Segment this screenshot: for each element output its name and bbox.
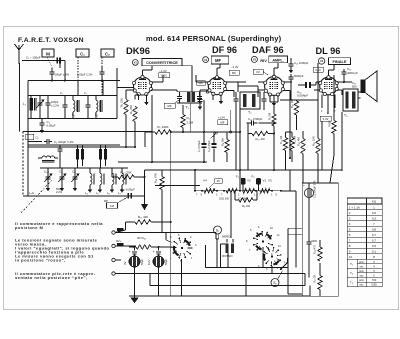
V1 designator circle: [132, 60, 138, 66]
resistor R2 22K vertical: [124, 100, 128, 115]
svg-text:0,7: 0,7: [372, 233, 377, 237]
svg-text:C₁₅-0,05µF: C₁₅-0,05µF: [121, 187, 135, 191]
svg-text:R₁₁-1M: R₁₁-1M: [279, 136, 283, 144]
resistor R6 6ohm: [239, 198, 253, 202]
svg-text:NERO: NERO: [222, 235, 231, 239]
svg-text:C₇: C₇: [84, 92, 87, 95]
svg-text:L₇: L₇: [118, 191, 121, 195]
svg-text:50µF: 50µF: [164, 259, 168, 265]
svg-text:V: V: [373, 274, 375, 278]
osc transformer B: [99, 149, 102, 160]
resistor R13 vertical: [301, 139, 305, 154]
oscillator coil L8: [42, 156, 55, 158]
box Cx label: [26, 134, 34, 140]
svg-text:C₂₀ 500µF 3VA: C₂₀ 500µF 3VA: [313, 180, 317, 198]
svg-text:4000 pF: 4000 pF: [347, 71, 358, 75]
V4 designator circle: [318, 58, 324, 64]
svg-text:+1,4V: +1,4V: [218, 116, 225, 120]
wire bottom bus: [129, 295, 310, 297]
values table: [347, 198, 382, 204]
svg-text:1 + L 16: 1 + L 16: [349, 205, 360, 209]
svg-text:3K R₁₆: 3K R₁₆: [137, 236, 147, 240]
wire V4 pins bottom: [321, 95, 323, 109]
svg-text:100pF ± 2%: 100pF ± 2%: [55, 73, 70, 77]
svg-text:DK96: DK96: [126, 45, 150, 56]
capacitor C14 5000pF: [290, 74, 292, 77]
capacitor C4 100pF: [44, 141, 47, 143]
op V2 tube: [208, 77, 225, 94]
svg-text:0,7: 0,7: [372, 238, 377, 242]
terminal post 2: [112, 244, 115, 247]
wire switch right links: [288, 227, 303, 229]
box FINALE: [329, 58, 351, 65]
switch rotor S1 wafer: [262, 240, 264, 242]
svg-text:5000pF: 5000pF: [294, 74, 304, 78]
wire drop x274: [273, 130, 275, 170]
wire antenna drop: [19, 63, 21, 132]
op V1 tube: [134, 77, 152, 95]
bus AVC line: [28, 146, 135, 148]
svg-text:sentato nella posizione “pile”: sentato nella posizione “pile”,: [15, 275, 88, 280]
wire row1 top rail: [28, 95, 117, 97]
trimmer cap L3: [87, 102, 89, 105]
box AMPL: [269, 56, 288, 63]
ground row g4: [89, 187, 91, 190]
svg-text:R₁₄ 1M: R₁₄ 1M: [290, 99, 294, 108]
filament resistor Rc: [243, 189, 255, 193]
svg-text:R₃ 25K: R₃ 25K: [129, 105, 133, 114]
transformer T2: [240, 92, 260, 109]
svg-text:Cₓ: Cₓ: [36, 136, 39, 140]
resistor R4 2.2M vertical: [181, 115, 185, 128]
svg-text:RP: RP: [104, 199, 108, 203]
switch rotor S2 wafer: [271, 255, 273, 257]
resistor R14 vertical: [294, 101, 298, 115]
svg-text:T₁: T₁: [350, 262, 353, 266]
loudspeaker: [361, 80, 366, 94]
ground row g1: [47, 185, 49, 188]
ground C13: [290, 67, 292, 70]
svg-text:R₁ - 33K: R₁ - 33K: [120, 171, 131, 175]
svg-text:R₆-6Ω: R₆-6Ω: [242, 204, 250, 208]
filament resistor Rb: [226, 189, 237, 193]
capacitor C12 4700pF: [248, 122, 252, 124]
capacitor C7 0.05uF: [203, 100, 205, 143]
switch S1 designator: [214, 226, 222, 234]
wire rotor drops: [262, 253, 264, 268]
oscillator box: [23, 131, 152, 133]
ground row g5: [99, 187, 101, 190]
svg-text:0,1: 0,1: [372, 249, 377, 253]
svg-text:0,5: 0,5: [372, 244, 377, 248]
resistor R15 vertical: [316, 139, 320, 154]
svg-text:C₄ 100pF ± 2%: C₄ 100pF ± 2%: [54, 140, 74, 144]
capacitor C13 1000pF: [290, 61, 292, 64]
switch rotor S1 wafer C: [181, 247, 183, 249]
coil L5: [100, 173, 102, 184]
resistor R7 2M vertical: [272, 114, 276, 126]
coil L7: [122, 173, 124, 184]
svg-text:0,85: 0,85: [371, 283, 377, 287]
switch S2 designator: [271, 279, 279, 287]
svg-text:500: 500: [352, 85, 357, 89]
bus HT line: [118, 161, 207, 163]
wire bus drop a: [155, 185, 200, 187]
wire V3 bottom drop: [273, 95, 275, 114]
wire bus 262: [215, 233, 217, 240]
svg-text:R₅ 190K: R₅ 190K: [157, 125, 168, 129]
svg-text:MF: MF: [232, 71, 236, 75]
wire V3 grid top: [277, 63, 279, 68]
coil L4: [90, 173, 92, 184]
transformer T3: [343, 89, 358, 111]
leader M: [47, 57, 52, 67]
wire switch left verticals: [216, 239, 218, 268]
svg-text:MF: MF: [215, 58, 221, 63]
op V3 tube: [265, 77, 284, 96]
capacitor C21 5000pF: [308, 239, 310, 242]
wire filament to transformer: [230, 192, 232, 238]
filament resistor Ra: [204, 189, 215, 193]
svg-text:R₂ 22K: R₂ 22K: [120, 98, 124, 107]
wire V3 right: [283, 81, 292, 83]
capacitor V2 left bypass: [199, 97, 201, 100]
wire drop x240: [239, 109, 241, 190]
capacitor C19 4000pF: [343, 69, 345, 72]
wire V4 grid top: [333, 65, 335, 70]
svg-text:OSC: OSC: [161, 74, 167, 78]
svg-text:FINALE: FINALE: [332, 59, 346, 64]
svg-text:5000: 5000: [312, 240, 318, 243]
leader C2: [101, 57, 103, 66]
resistor R17 39 vertical: [318, 276, 322, 290]
svg-text:RIV: RIV: [260, 58, 267, 63]
wire antenna rail: [61, 60, 65, 62]
switch transformer: [226, 244, 229, 254]
capacitor C15 coupling dark: [305, 82, 307, 88]
variable capacitor C6: [74, 174, 76, 177]
svg-text:mod. 614 PERSONAL (Superdingh: mod. 614 PERSONAL (Superdinghy): [146, 34, 282, 43]
wire R5 left: [145, 131, 155, 133]
svg-text:± 2,2%: ± 2,2%: [51, 103, 60, 107]
V3 designator circle: [251, 56, 257, 62]
resistor R11 33K: [118, 175, 134, 179]
svg-text:V: V: [373, 269, 375, 273]
svg-text:C₁ – 100pF: C₁ – 100pF: [26, 56, 41, 60]
wire V1 anode drop: [151, 95, 153, 162]
resistor R16 47K vertical: [160, 177, 164, 190]
svg-text:C₁: C₁: [80, 51, 85, 56]
battery plug 1: [117, 228, 124, 231]
ground row g2: [61, 185, 63, 188]
svg-text:R₁₃ 4M: R₁₃ 4M: [297, 137, 301, 146]
wire rail y80: [28, 80, 120, 82]
wire right diagonals: [341, 112, 343, 170]
resistor R11 1M vertical: [283, 138, 287, 151]
svg-text:R₁₈-470: R₁₈-470: [313, 244, 317, 254]
wire V1 right pins: [151, 81, 163, 83]
svg-text:−1,4V: −1,4V: [231, 65, 239, 69]
svg-text:R-680: R-680: [329, 120, 332, 127]
wire long drop 170: [170, 132, 172, 296]
svg-text:100pF: 100pF: [51, 100, 59, 104]
ground bottom: [134, 296, 136, 298]
right box outline: [302, 183, 338, 296]
ground row g3: [74, 185, 76, 188]
svg-text:8,2V: 8,2V: [147, 259, 151, 265]
label V3 det box: [253, 69, 263, 74]
electrolytic C17: [153, 256, 164, 267]
wire V1 left pins: [126, 89, 134, 91]
svg-text:V: V: [373, 264, 375, 268]
svg-text:V4: V4: [320, 59, 324, 63]
svg-text:R₁₅ 42K: R₁₅ 42K: [138, 215, 149, 219]
svg-text:0,05µF 2,2%: 0,05µF 2,2%: [77, 73, 93, 77]
V2 designator circle: [203, 57, 209, 63]
trimmer cap ant: [47, 100, 49, 103]
svg-text:R₁₇-39: R₁₇-39: [313, 275, 317, 283]
svg-text:prim: prim: [359, 279, 364, 282]
capacitor C2 100pF: [51, 69, 53, 72]
wire osc rail: [28, 144, 120, 146]
terminal post 4: [112, 272, 115, 275]
variable capacitor C5: [61, 174, 63, 177]
trimmer cap L2: [64, 102, 66, 105]
coil L6: [112, 173, 114, 184]
svg-text:50µF: 50µF: [140, 259, 144, 265]
label MF box: [175, 99, 181, 104]
variable capacitor ant 1: [39, 100, 41, 103]
wire V3 left: [258, 81, 265, 83]
svg-text:C₂: C₂: [105, 51, 110, 56]
resistor R16b vertical: [332, 121, 336, 134]
svg-text:R₁₅ 10K: R₁₅ 10K: [312, 136, 316, 146]
svg-text:AMPL.: AMPL.: [272, 58, 283, 62]
capacitor T1 right: [199, 94, 201, 97]
svg-text:L₁: L₁: [23, 102, 26, 106]
antenna: [18, 50, 20, 64]
svg-text:10: 10: [349, 255, 353, 259]
wire y132 link: [204, 131, 240, 133]
label V4 det: [313, 67, 323, 72]
wire rotor C left: [165, 233, 167, 241]
capacitor T1 left: [179, 94, 181, 97]
svg-text:C₁₂ 4700pF: C₁₂ 4700pF: [248, 117, 263, 121]
wire filament ends: [281, 190, 292, 192]
svg-text:+: +: [153, 250, 155, 254]
svg-text:R₁₆ 47K: R₁₆ 47K: [154, 173, 158, 183]
svg-text:0,004µF: 0,004µF: [297, 94, 308, 98]
wire x290 lower: [289, 170, 291, 191]
svg-text:0,8: 0,8: [372, 227, 377, 231]
resistor R10 1M: [252, 131, 268, 135]
tuner bottom bus: [23, 195, 145, 197]
svg-text:posizione M: posizione M: [15, 225, 44, 230]
coil L2: [73, 100, 75, 111]
resistor R3 25K vertical: [133, 107, 137, 122]
capacitor C9 dark: [213, 132, 215, 143]
wire row1 verticals: [77, 81, 79, 96]
wire ground arrow mid: [144, 170, 146, 204]
svg-text:prim: prim: [359, 261, 364, 264]
resistor R12 2M vertical: [290, 138, 294, 151]
svg-text:C₅: C₅: [60, 92, 63, 95]
svg-text:3V: 3V: [123, 261, 127, 265]
svg-text:V4: V4: [203, 179, 207, 183]
wire coupling tie: [286, 131, 293, 133]
box MF: [211, 56, 229, 64]
resistor R8 3M vertical: [225, 140, 229, 153]
variable capacitor C1A: [47, 174, 49, 177]
svg-text:M: M: [46, 51, 50, 56]
svg-text:DAF 96: DAF 96: [252, 45, 284, 55]
wire V2 left: [196, 81, 209, 83]
wire x342 bottom: [341, 150, 343, 171]
wire T1 plate feed: [182, 65, 192, 67]
svg-text:ROSSO: ROSSO: [222, 254, 233, 258]
wire V4 left: [316, 81, 320, 83]
svg-text:F.A.R.E.T. VOXSON: F.A.R.E.T. VOXSON: [18, 37, 84, 44]
wire V1 grid top: [151, 66, 153, 70]
resistor R5 190K: [155, 130, 171, 134]
svg-text:9V+: 9V+: [116, 239, 122, 243]
wire bus 285: [150, 285, 305, 287]
svg-text:DL 96: DL 96: [316, 46, 341, 56]
svg-text:V1: V1: [263, 179, 267, 183]
svg-text:10Ω 1W: 10Ω 1W: [219, 197, 229, 201]
svg-text:700: 700: [372, 278, 377, 282]
osc transformer A: [76, 149, 79, 160]
label V2 volt: [229, 70, 239, 75]
wire V4 right pins: [337, 81, 352, 83]
ground row g7: [121, 187, 123, 190]
svg-text:2,2M: 2,2M: [187, 121, 194, 125]
wire drop x290: [289, 91, 291, 159]
wire switch bus 267: [206, 267, 288, 269]
wire cap leads: [134, 247, 136, 251]
filament resistor Rd: [260, 189, 270, 193]
svg-text:V2: V2: [247, 179, 251, 183]
svg-text:R₁₀-1M: R₁₀-1M: [256, 137, 266, 141]
wire antenna to tuner: [38, 60, 60, 62]
box C2: [101, 49, 114, 57]
svg-text:0,5: 0,5: [372, 211, 377, 215]
svg-text:T₂: T₂: [248, 111, 252, 115]
svg-text:L₇A: L₇A: [29, 191, 34, 195]
wire V1 cathode: [138, 95, 140, 101]
wire drops bottom: [245, 268, 247, 297]
wire T2 top: [237, 82, 239, 92]
box CONVERTITRICE: [142, 59, 182, 66]
box M: [42, 49, 54, 57]
filament rail: [195, 190, 292, 192]
svg-text:0,05µF: 0,05µF: [47, 124, 56, 128]
wire V2 right pins: [226, 81, 247, 83]
wire switch right vertical: [287, 228, 289, 294]
svg-text:25: 25: [217, 179, 221, 183]
leader C1: [77, 57, 79, 95]
electrolytic C20: [304, 188, 313, 197]
svg-text:MF: MF: [167, 104, 171, 108]
wire V2 grid top: [219, 64, 221, 68]
svg-text:C₇ 0,05µF: C₇ 0,05µF: [197, 140, 201, 152]
capacitor T2 left: [235, 96, 237, 99]
transformer T1: [187, 92, 190, 102]
svg-text:R₇ 2M: R₇ 2M: [268, 113, 272, 120]
capacitor C2A trim: [101, 69, 103, 72]
electrolytic C16: [129, 256, 140, 267]
label 90V box: [197, 81, 206, 86]
svg-text:R₈-3M: R₈-3M: [221, 138, 225, 146]
label box 3-4: [320, 116, 331, 121]
wire speaker link: [358, 91, 361, 93]
capacitor C3 gnd: [41, 119, 43, 122]
svg-text:F₁: F₁: [236, 175, 239, 179]
bus main line: [145, 169, 343, 171]
wire row1 bottom rail: [28, 118, 117, 120]
terminal post 1: [112, 231, 115, 234]
svg-text:+: +: [129, 250, 131, 254]
svg-text:MF: MF: [220, 120, 224, 124]
op V4 tube: [320, 77, 338, 95]
svg-text:−1,4V: −1,4V: [159, 69, 167, 73]
svg-text:in posizione “rosso”,: in posizione “rosso”,: [15, 257, 66, 262]
wire V3 cathode: [269, 95, 271, 102]
svg-text:V3: V3: [268, 179, 272, 183]
svg-text:prim: prim: [359, 270, 364, 273]
svg-text:C₉ 0,05µF: C₉ 0,05µF: [207, 140, 211, 152]
svg-text:V: V: [373, 260, 375, 264]
box C1: [76, 49, 89, 57]
wire rotor C drop: [180, 259, 182, 296]
capacitor osc small: [59, 146, 61, 149]
coil L1 dark: [30, 98, 34, 111]
ganged capacitor dashed line: [20, 180, 52, 214]
svg-text:+: +: [303, 184, 305, 188]
coil L3: [96, 100, 98, 111]
wire left col: [27, 81, 29, 197]
filament pins: [194, 190, 196, 192]
resistor R15 42K: [135, 220, 151, 224]
terminal post 3: [112, 258, 115, 261]
wire coupling rail: [290, 81, 292, 100]
svg-text:CONVERTITRICE: CONVERTITRICE: [146, 60, 178, 65]
svg-text:0,3: 0,3: [372, 216, 377, 220]
svg-text:C₁₃ 1000pF: C₁₃ 1000pF: [294, 61, 309, 65]
capacitor T2 right: [263, 96, 265, 99]
wire V2 cathode: [212, 95, 214, 101]
ground row g6: [111, 187, 113, 190]
resistor R18 470 vertical: [318, 247, 322, 261]
svg-text:DF 96: DF 96: [212, 45, 237, 55]
svg-text:0V: 0V: [256, 70, 260, 74]
svg-text:1M: 1M: [110, 204, 115, 208]
wire tuner varcap rail: [40, 167, 128, 169]
battery plug 2: [117, 243, 124, 246]
switch toggle pile-rete: [281, 263, 288, 270]
